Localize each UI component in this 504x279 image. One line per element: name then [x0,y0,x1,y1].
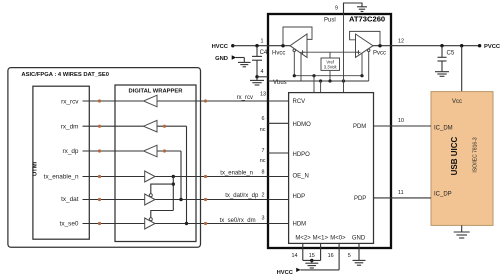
svg-text:ISO/IEC 7816-3: ISO/IEC 7816-3 [473,137,479,173]
svg-text:5: 5 [348,253,351,259]
svg-text:12: 12 [398,39,404,45]
svg-text:AT73C260: AT73C260 [349,15,385,24]
svg-text:11: 11 [398,190,404,196]
svg-text:rx_dp: rx_dp [63,148,79,155]
svg-text:Pusl: Pusl [324,17,336,23]
svg-text:tx_enable_n: tx_enable_n [220,171,253,177]
svg-text:rx_dm: rx_dm [61,123,79,130]
svg-text:RCV: RCV [293,99,306,105]
svg-text:M<0>: M<0> [330,236,346,242]
svg-text:9: 9 [335,6,338,12]
wire Vcc to USB UICC [461,46,463,92]
op-amp U1 Hvcc comparator [268,27,312,81]
svg-text:PDP: PDP [354,196,366,202]
svg-text:14: 14 [292,253,298,259]
wire tx_dat (UTMI to chip pin 2) [61,193,268,203]
AT73C260 chip outline [268,14,391,248]
buffer B5 tx_dat tri-state [145,194,155,205]
svg-text:GND: GND [215,56,228,62]
pin 7 stub nc [260,148,289,164]
svg-text:rx_rcv: rx_rcv [61,98,79,105]
node bus line B Vbus [268,79,369,86]
svg-text:3.3Volt: 3.3Volt [324,65,338,70]
pin 8 stub [262,170,289,177]
svg-text:HVCC: HVCC [277,270,294,276]
svg-text:16: 16 [328,253,334,259]
capacitor C4 [252,44,268,77]
buffer B3 rx_dp [144,145,158,157]
capacitor C5 [438,46,455,72]
pin 13 stub [260,92,289,101]
wire pin 11 PDP to IC_DP [374,190,432,198]
wire pin 10 PDM to IC_DM [374,118,432,126]
svg-text:10: 10 [398,118,404,124]
svg-text:C4: C4 [260,50,268,56]
svg-text:GND: GND [352,236,366,242]
svg-text:7: 7 [262,148,265,154]
wire pin 9 internal [343,14,345,93]
svg-text:nc: nc [260,127,266,133]
svg-text:tx_se0/rx_dm: tx_se0/rx_dm [220,218,256,224]
ground (pin 5) [353,260,366,265]
svg-text:nc: nc [260,158,266,164]
Vref 3.3V box [321,52,340,81]
ground (under C5) [435,72,449,77]
ground (pins 14 15) [305,263,318,268]
pin 14 stub [292,243,303,260]
svg-text:tx_enable_n: tx_enable_n [44,173,79,180]
svg-text:OE_N: OE_N [293,174,309,180]
svg-text:8: 8 [262,170,265,176]
svg-text:ASIC/FPGA : 4 WIRES DAT_SE0: ASIC/FPGA : 4 WIRES DAT_SE0 [21,72,109,78]
svg-text:tx_dat/rx_dp: tx_dat/rx_dp [225,193,259,199]
wire tx_enable_n (UTMI to chip pin 8) [44,171,268,181]
svg-text:IC_DM: IC_DM [434,125,453,131]
svg-text:Vcc: Vcc [452,99,462,105]
wire rx_dm (UTMI to wrapper route) [61,123,187,130]
svg-text:2: 2 [262,192,265,198]
wire bus B to core [320,81,322,93]
pin 5 stub to ground [348,243,359,260]
buffer B4 tx_enable_n [145,171,155,182]
svg-text:tx_dat: tx_dat [61,196,79,203]
svg-text:6: 6 [262,116,265,122]
svg-text:PVCC: PVCC [484,44,501,50]
svg-text:M<1>: M<1> [313,236,329,242]
ground (pin 9) [357,7,367,12]
svg-text:UTMI: UTMI [33,161,39,176]
svg-text:15: 15 [309,253,315,259]
wire rx_dp vertical route to pin2 row [179,151,182,201]
svg-text:Vbus: Vbus [273,80,287,86]
svg-text:3: 3 [262,215,265,221]
svg-text:1: 1 [261,39,264,45]
svg-text:IC_DP: IC_DP [434,192,452,198]
svg-text:tx_se0: tx_se0 [60,221,79,228]
buffer B1 rx_rcv [144,95,158,107]
svg-text:HDM: HDM [293,221,307,227]
svg-text:HVCC: HVCC [212,44,229,50]
svg-text:M<2>: M<2> [295,236,311,242]
ground (GND arrow) [238,62,251,66]
wire rx_rcv (UTMI to chip pin 13) [61,95,268,105]
svg-text:13: 13 [260,92,266,98]
op-amp U2 Pvcc driver [350,31,391,81]
svg-text:Pvcc: Pvcc [373,51,386,57]
svg-text:DIGITAL WRAPPER: DIGITAL WRAPPER [129,88,184,94]
USB UICC box [431,92,493,226]
ground (under USB UICC) [454,225,470,238]
core logic box [289,93,374,244]
svg-text:rx_rcv: rx_rcv [237,95,253,101]
svg-text:HDMO: HDMO [293,122,312,128]
svg-text:C5: C5 [447,51,455,57]
wire rx_dp (UTMI to wrapper route) [63,148,182,155]
pin 15 stub [309,243,321,260]
UTMI box [33,86,90,239]
svg-text:USB UICC: USB UICC [450,136,459,175]
wire tx_se0 (UTMI to chip pin 3) [60,218,268,228]
pin 2 stub [262,192,289,199]
node Vbus pin 4 [255,75,268,80]
node bus line A [293,74,364,77]
digital wrapper box [115,85,196,242]
svg-text:Hvcc: Hvcc [272,51,285,57]
buffer B6 tx_se0 tri-state [145,218,155,229]
HVCC supply label top left [212,44,268,50]
svg-text:HDPO: HDPO [293,152,311,158]
svg-text:HDP: HDP [293,194,306,200]
GND supply label top left [215,55,244,62]
ASIC/FPGA block box [8,68,201,248]
buffer B2 rx_dm [144,120,158,132]
ground (under C4) [250,80,264,85]
wire Vref reference line [303,51,359,53]
junction dots on ASIC wires [98,99,207,225]
pin 16 stub to HVCC [277,243,340,276]
pin 6 stub nc [260,116,289,133]
wire joining pins 14 15 [303,259,321,264]
pin 9 to ground at top [335,3,362,14]
pin 12 wire to PVCC [391,39,501,51]
svg-text:4: 4 [261,69,264,75]
enable net from tx_enable_n to B5 B6 [151,175,175,218]
svg-text:PDM: PDM [353,124,366,130]
wire rx_dm vertical route to pin3 row [185,126,188,225]
pin 3 stub [262,215,289,223]
wire bus A to core [313,76,315,93]
